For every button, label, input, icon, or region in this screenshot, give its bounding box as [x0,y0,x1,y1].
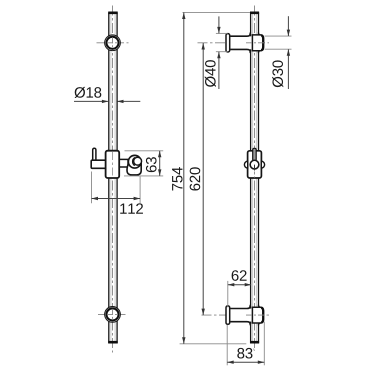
left rail shading [110,13,112,342]
dimension Ø40 text [205,60,216,87]
right rail fill [250,12,259,344]
dimension 63 extension lines [125,150,164,152]
right rail top cap [250,12,259,15]
bracket collar thick rim [261,308,263,323]
dimension 83 extension lines [226,325,228,366]
holder cup opening (left view) [134,157,142,165]
bracket wall flange [226,306,230,324]
bottom wall bracket (front view) [230,309,253,322]
slider lever (front view, gray) [253,148,257,161]
slider body (front view) [248,151,262,178]
dimension 62 line [228,284,251,286]
left rail top cap [108,12,118,15]
dimension Ø40 extension lines [216,32,228,34]
right rail outlines [250,13,252,344]
dimension Ø30 lines [287,16,289,36]
centerline: right rail vertical [254,6,256,352]
dimension 112 text [120,203,143,213]
bracket collar centerline re-draw [246,314,266,316]
top wall-mount ring (left view) [105,35,121,51]
slider body inner centerline [112,152,114,177]
centerline: right top bracket horizontal [198,42,270,44]
dimension 83 line [227,361,264,363]
left rail fill [108,12,118,344]
slider center tick (front view) [254,165,256,171]
right rail shading [252,13,254,342]
bracket collar thick rim [261,35,263,50]
holder cup lower body (left view) [127,164,141,175]
dimension 112 line [92,198,141,200]
bracket arm top line [230,33,250,37]
centerline: left bottom ring horizontal [98,313,127,315]
dimension 620 line [202,43,204,315]
dimension 62 text [232,270,247,281]
dimension 754 extension lines [183,11,251,13]
dimension Ø18 text [75,87,102,98]
slider lever handle (left view) [93,148,96,162]
bracket rail fillets right [258,33,260,54]
bracket rail fillets right [258,305,260,326]
slider body (left view) [106,151,120,178]
dimension 63 line [159,151,161,176]
bracket collar [252,35,263,51]
slider pivot circle (front view) [250,160,259,169]
slider left ear (front view) [244,161,247,168]
left rail bottom cap [108,341,118,344]
dimension 754 line [183,13,185,344]
dimension Ø40 lines [218,16,220,33]
bracket wall flange [226,34,230,52]
dimension Ø30 text [272,60,283,87]
holder cup rim circle (left view) [128,155,141,168]
top wall bracket (front view) [230,36,253,49]
dimension Ø18 lines [74,100,108,102]
right rail bottom cap [250,341,259,344]
dimension 83 text [237,348,252,359]
holder cup inner rim arc (left view) [133,158,135,166]
bracket collar centerline re-draw [246,42,266,44]
bracket arm bottom line [230,322,250,326]
dimension Ø30 extension lines [265,35,292,37]
slider right ear (front view) [261,161,264,168]
centerline: left top ring horizontal [97,42,129,44]
dimension 112 extension lines [91,172,93,204]
dimension 62 extension line [227,281,229,307]
slider lever arm (left view) [91,160,106,168]
dimension 754 text [172,167,182,190]
bracket arm top line [230,305,250,309]
slider stub to holder (left view) [119,159,128,167]
centerline: left rail vertical [112,6,114,353]
left rail outlines [108,13,110,344]
centerline: right bottom bracket horizontal [202,314,270,316]
bracket arm bottom line [230,49,250,53]
dimension 620 text [190,167,201,190]
dimension 63 text [146,157,157,172]
ring centerline dashes re-draw [107,42,118,44]
bottom wall-mount ring (left view) [105,307,121,323]
stray tick mark after 83 [253,349,256,351]
bracket collar [252,307,263,323]
